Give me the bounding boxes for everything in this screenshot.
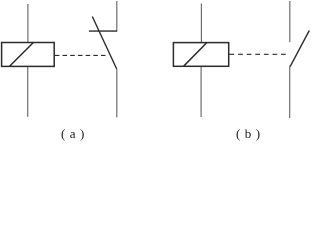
subfigure label (a) bbox=[61, 126, 85, 142]
dashed mechanical link (a) bbox=[55, 54, 106, 56]
NO contact (b) top terminal wire bbox=[289, 1, 291, 42]
NO contact (b) bottom terminal wire bbox=[289, 66, 291, 119]
subfigure label (b) bbox=[236, 126, 261, 142]
relay coil KA (b) bottom wire bbox=[200, 66, 202, 117]
relay coil KA (b) top wire bbox=[200, 4, 202, 43]
NC contact (a) stop bar bbox=[89, 30, 117, 32]
relay coil KA (a) diagonal slash bbox=[9, 43, 33, 67]
NC contact (a) top terminal wire bbox=[116, 1, 118, 31]
relay coil KA (b) diagonal slash bbox=[184, 43, 207, 67]
dashed mechanical link (b) bbox=[230, 53, 286, 55]
NC contact (a) bottom terminal wire bbox=[116, 69, 118, 117]
NO contact (b) moving contact bbox=[290, 31, 309, 67]
relay coil KA (a) bottom wire bbox=[27, 66, 29, 116]
relay coil KA (a) top wire bbox=[27, 4, 29, 43]
relay coil KA (b) rectangle bbox=[173, 43, 228, 67]
NC contact (a) moving contact bbox=[92, 17, 116, 70]
relay coil KA (a) rectangle bbox=[2, 43, 55, 67]
